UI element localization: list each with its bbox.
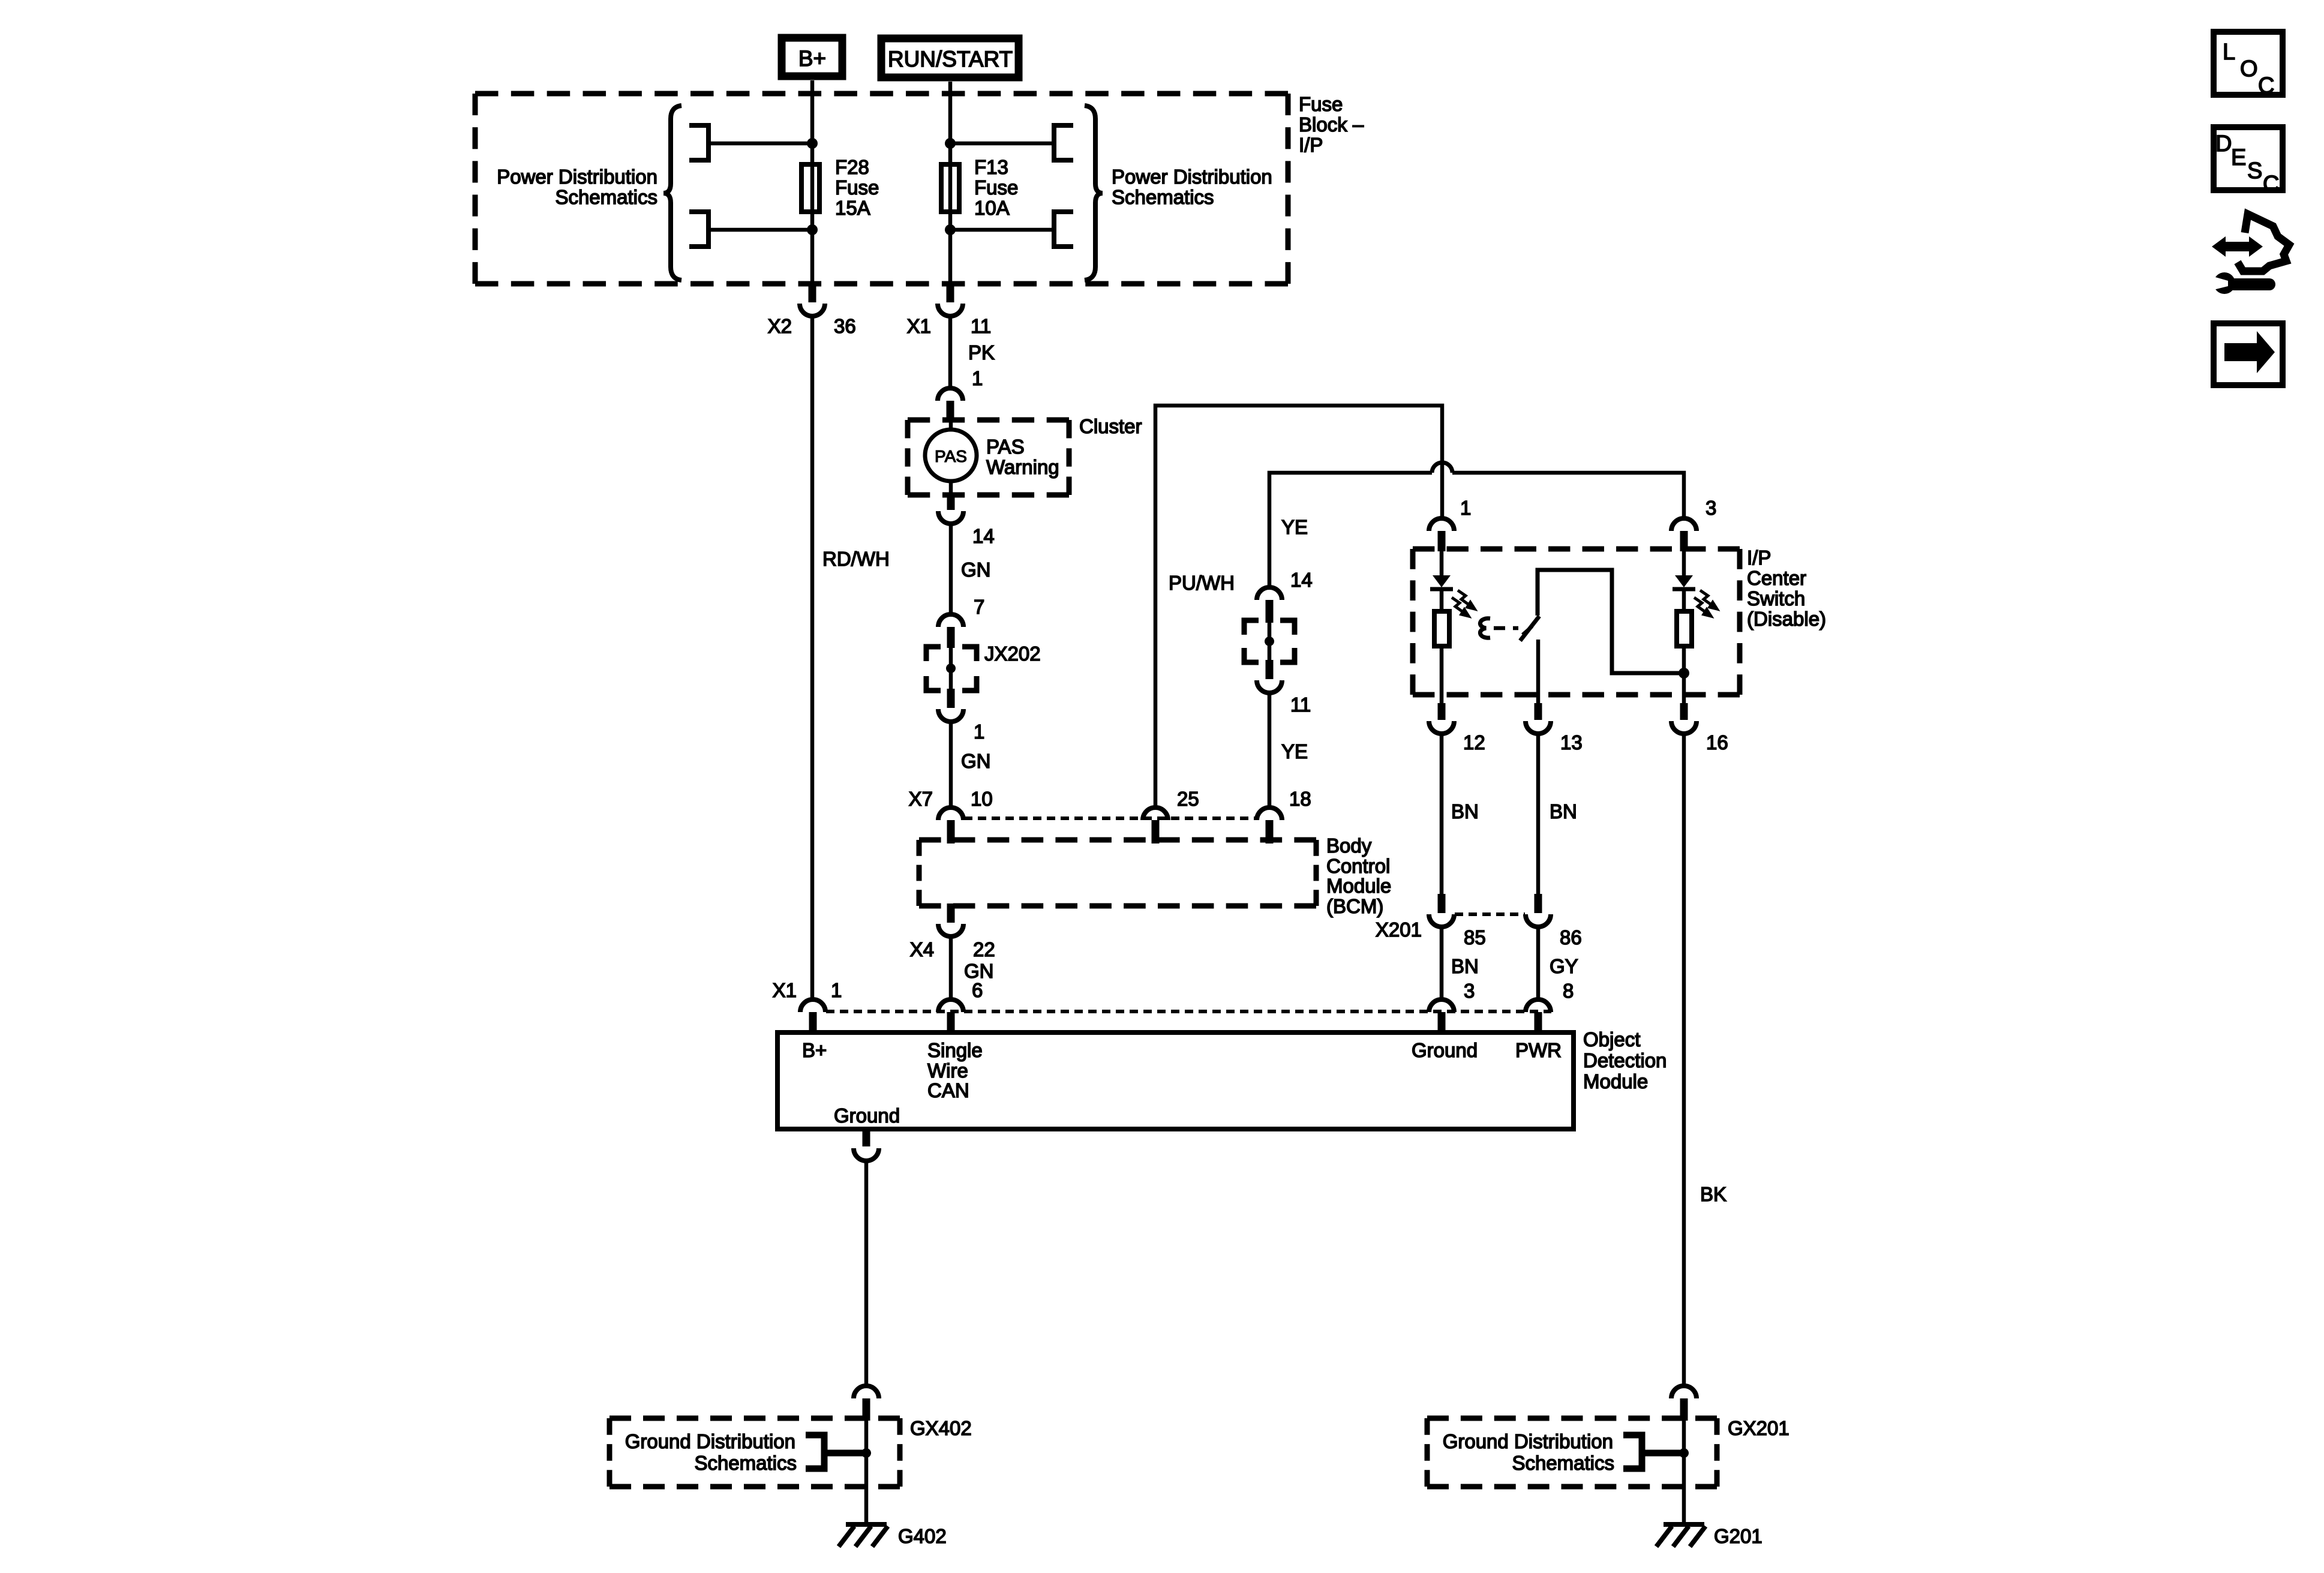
svg-text:Center: Center (1747, 567, 1806, 589)
svg-text:14: 14 (1290, 569, 1313, 591)
svg-text:Power Distribution: Power Distribution (497, 166, 657, 188)
svg-text:CAN: CAN (927, 1079, 969, 1101)
svg-text:(Disable): (Disable) (1747, 608, 1826, 630)
svg-text:3: 3 (1464, 980, 1475, 1002)
svg-text:Body: Body (1326, 834, 1372, 857)
svg-text:12: 12 (1463, 731, 1485, 754)
svg-text:16: 16 (1706, 731, 1728, 754)
svg-text:13: 13 (1560, 731, 1583, 754)
svg-text:86: 86 (1560, 926, 1582, 948)
svg-text:C: C (2258, 73, 2274, 98)
svg-text:GX201: GX201 (1728, 1417, 1789, 1439)
svg-text:Fuse: Fuse (835, 176, 879, 199)
svg-text:Ground: Ground (834, 1104, 900, 1127)
svg-text:RD/WH: RD/WH (822, 548, 890, 570)
svg-text:25: 25 (1177, 788, 1199, 810)
svg-text:C: C (2263, 172, 2279, 197)
svg-text:BN: BN (1451, 955, 1479, 977)
svg-text:F13: F13 (974, 156, 1008, 178)
svg-text:G402: G402 (898, 1525, 947, 1547)
svg-text:14: 14 (972, 525, 995, 547)
svg-text:PU/WH: PU/WH (1169, 572, 1235, 594)
svg-text:Fuse: Fuse (1299, 93, 1343, 115)
svg-text:X4: X4 (910, 938, 934, 960)
svg-text:JX202: JX202 (984, 643, 1041, 665)
svg-text:1: 1 (972, 367, 983, 389)
svg-text:Detection: Detection (1583, 1049, 1667, 1071)
svg-text:Ground: Ground (1412, 1039, 1478, 1061)
svg-text:X2: X2 (768, 315, 792, 337)
svg-text:GN: GN (961, 559, 991, 581)
svg-text:X7: X7 (909, 788, 933, 810)
svg-text:36: 36 (834, 315, 856, 337)
svg-text:L: L (2223, 40, 2235, 65)
svg-text:1: 1 (1460, 497, 1471, 519)
svg-text:15A: 15A (835, 197, 870, 219)
svg-text:PK: PK (968, 341, 995, 364)
svg-text:Schematics: Schematics (1512, 1452, 1614, 1474)
svg-text:Ground Distribution: Ground Distribution (1443, 1430, 1613, 1452)
svg-text:Ground Distribution: Ground Distribution (625, 1430, 795, 1452)
svg-text:S: S (2247, 158, 2262, 184)
svg-text:YE: YE (1281, 516, 1308, 538)
svg-text:85: 85 (1464, 926, 1486, 948)
svg-text:8: 8 (1563, 980, 1574, 1002)
svg-text:Single: Single (927, 1039, 983, 1061)
svg-text:I/P: I/P (1747, 547, 1771, 569)
svg-text:Fuse: Fuse (974, 176, 1018, 199)
svg-text:Block –: Block – (1299, 113, 1364, 136)
svg-text:Schematics: Schematics (1112, 186, 1214, 208)
svg-text:Cluster: Cluster (1079, 415, 1142, 437)
svg-text:BK: BK (1700, 1183, 1727, 1205)
svg-text:B+: B+ (798, 46, 826, 71)
svg-text:6: 6 (972, 979, 983, 1001)
svg-text:YE: YE (1281, 740, 1308, 763)
svg-text:PAS: PAS (986, 436, 1025, 458)
svg-text:Wire: Wire (927, 1059, 968, 1082)
svg-text:X1: X1 (907, 315, 931, 337)
svg-text:PAS: PAS (935, 447, 967, 466)
svg-text:10: 10 (971, 788, 993, 810)
svg-text:RUN/START: RUN/START (888, 47, 1013, 71)
svg-text:11: 11 (1290, 694, 1311, 716)
svg-text:GN: GN (961, 750, 991, 772)
svg-text:Module: Module (1583, 1070, 1648, 1092)
svg-text:Power Distribution: Power Distribution (1112, 166, 1272, 188)
svg-text:B+: B+ (802, 1039, 827, 1061)
svg-text:I/P: I/P (1299, 134, 1323, 156)
svg-text:(BCM): (BCM) (1326, 895, 1383, 917)
svg-text:GY: GY (1550, 955, 1578, 977)
svg-text:18: 18 (1289, 788, 1311, 810)
svg-text:Switch: Switch (1747, 587, 1805, 610)
svg-text:E: E (2231, 145, 2246, 170)
svg-text:1: 1 (831, 979, 842, 1001)
svg-text:PWR: PWR (1515, 1039, 1562, 1061)
svg-text:Schematics: Schematics (555, 186, 657, 208)
svg-text:Schematics: Schematics (694, 1452, 797, 1474)
svg-text:F28: F28 (835, 156, 869, 178)
svg-text:D: D (2215, 131, 2232, 157)
svg-text:BN: BN (1550, 800, 1577, 822)
svg-text:O: O (2240, 56, 2258, 82)
svg-text:Warning: Warning (986, 456, 1059, 478)
svg-text:11: 11 (971, 315, 991, 337)
svg-text:Module: Module (1326, 875, 1391, 897)
svg-text:3: 3 (1706, 497, 1716, 519)
svg-text:Object: Object (1583, 1028, 1640, 1050)
svg-text:Control: Control (1326, 855, 1390, 877)
svg-text:7: 7 (974, 596, 984, 618)
svg-text:10A: 10A (974, 197, 1010, 219)
svg-text:X201: X201 (1376, 918, 1422, 941)
svg-text:X1: X1 (773, 979, 797, 1001)
svg-text:1: 1 (974, 721, 984, 743)
svg-text:GX402: GX402 (910, 1417, 972, 1439)
svg-text:G201: G201 (1714, 1525, 1762, 1547)
svg-text:22: 22 (973, 938, 995, 960)
svg-text:BN: BN (1451, 800, 1479, 822)
